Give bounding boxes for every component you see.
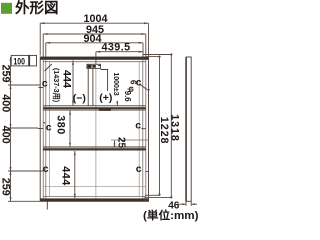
dimension 945 line: [43, 24, 146, 36]
panel top inner line: [43, 61, 146, 63]
dimension 1004 line: [40, 13, 148, 25]
svg-text:(+): (+): [99, 92, 112, 104]
dim 380: [55, 111, 72, 148]
svg-text:1000±3: 1000±3: [112, 72, 119, 95]
left dimension column 259/400/400/259: [0, 57, 40, 201]
panel bottom edge thick: [40, 198, 148, 201]
100 bracket top-left: [11, 55, 36, 67]
svg-text:1318: 1318: [168, 114, 180, 142]
svg-text:444: 444: [60, 166, 72, 186]
svg-text:外形図: 外形図: [15, 0, 59, 17]
hole top-left: [39, 64, 52, 89]
panel outer rect: [40, 57, 148, 201]
wire minus: [88, 68, 93, 105]
tick arrow above rail 1: [116, 101, 118, 106]
svg-text:c: c: [135, 120, 141, 132]
dim 1228: [145, 56, 170, 196]
svg-text:(1437-3用): (1437-3用): [52, 68, 61, 103]
svg-text:259: 259: [0, 178, 11, 196]
svg-text:(単位:mm): (単位:mm): [143, 208, 199, 222]
svg-text:c: c: [42, 77, 48, 89]
dim 444 bottom: [60, 151, 76, 198]
svg-text:(−): (−): [73, 93, 86, 105]
svg-text:400: 400: [0, 94, 11, 112]
terminal box: [87, 64, 101, 68]
panel top edge thick: [40, 57, 148, 60]
hole low-left: [38, 163, 49, 175]
panel center vertical line: [95, 68, 97, 198]
svg-text:1228: 1228: [158, 117, 170, 145]
svg-text:c: c: [43, 163, 49, 175]
svg-text:439.5: 439.5: [101, 42, 130, 54]
svg-text:25: 25: [116, 137, 127, 149]
svg-text:259: 259: [0, 64, 11, 82]
svg-text:9.6: 9.6: [123, 91, 132, 103]
dim 25 detail: [111, 137, 148, 149]
svg-text:100: 100: [13, 56, 25, 67]
panel inner vertical frame lines right: [145, 60, 147, 199]
rail 2: [43, 147, 146, 151]
hole mid-right: [135, 120, 145, 132]
svg-text:c: c: [46, 121, 52, 133]
dimension 439.5 line: [96, 42, 143, 64]
svg-text:380: 380: [55, 115, 67, 135]
wire plus: [101, 70, 108, 92]
svg-text:6: 6: [128, 80, 137, 85]
rail 1: [43, 106, 146, 111]
light seam line lower: [43, 185, 146, 187]
title green square: [1, 3, 12, 14]
hole top-right: [136, 77, 150, 90]
panel bottom inner line: [43, 196, 146, 198]
svg-text:c: c: [136, 163, 142, 175]
dim 1318: [143, 53, 180, 200]
svg-text:904: 904: [83, 33, 101, 45]
panel inner vertical frame lines left: [42, 60, 44, 199]
dim 46: [168, 201, 197, 212]
side view strip: [186, 57, 191, 201]
svg-text:444: 444: [61, 70, 73, 88]
dim 444 top: [52, 60, 74, 105]
extension lines top dims: [40, 23, 148, 57]
svg-text:400: 400: [0, 126, 11, 144]
dimension 904 line: [46, 33, 143, 45]
drain stub bottom-left: [46, 201, 48, 209]
hole mid-left: [38, 121, 52, 133]
hole low-right: [136, 163, 149, 175]
